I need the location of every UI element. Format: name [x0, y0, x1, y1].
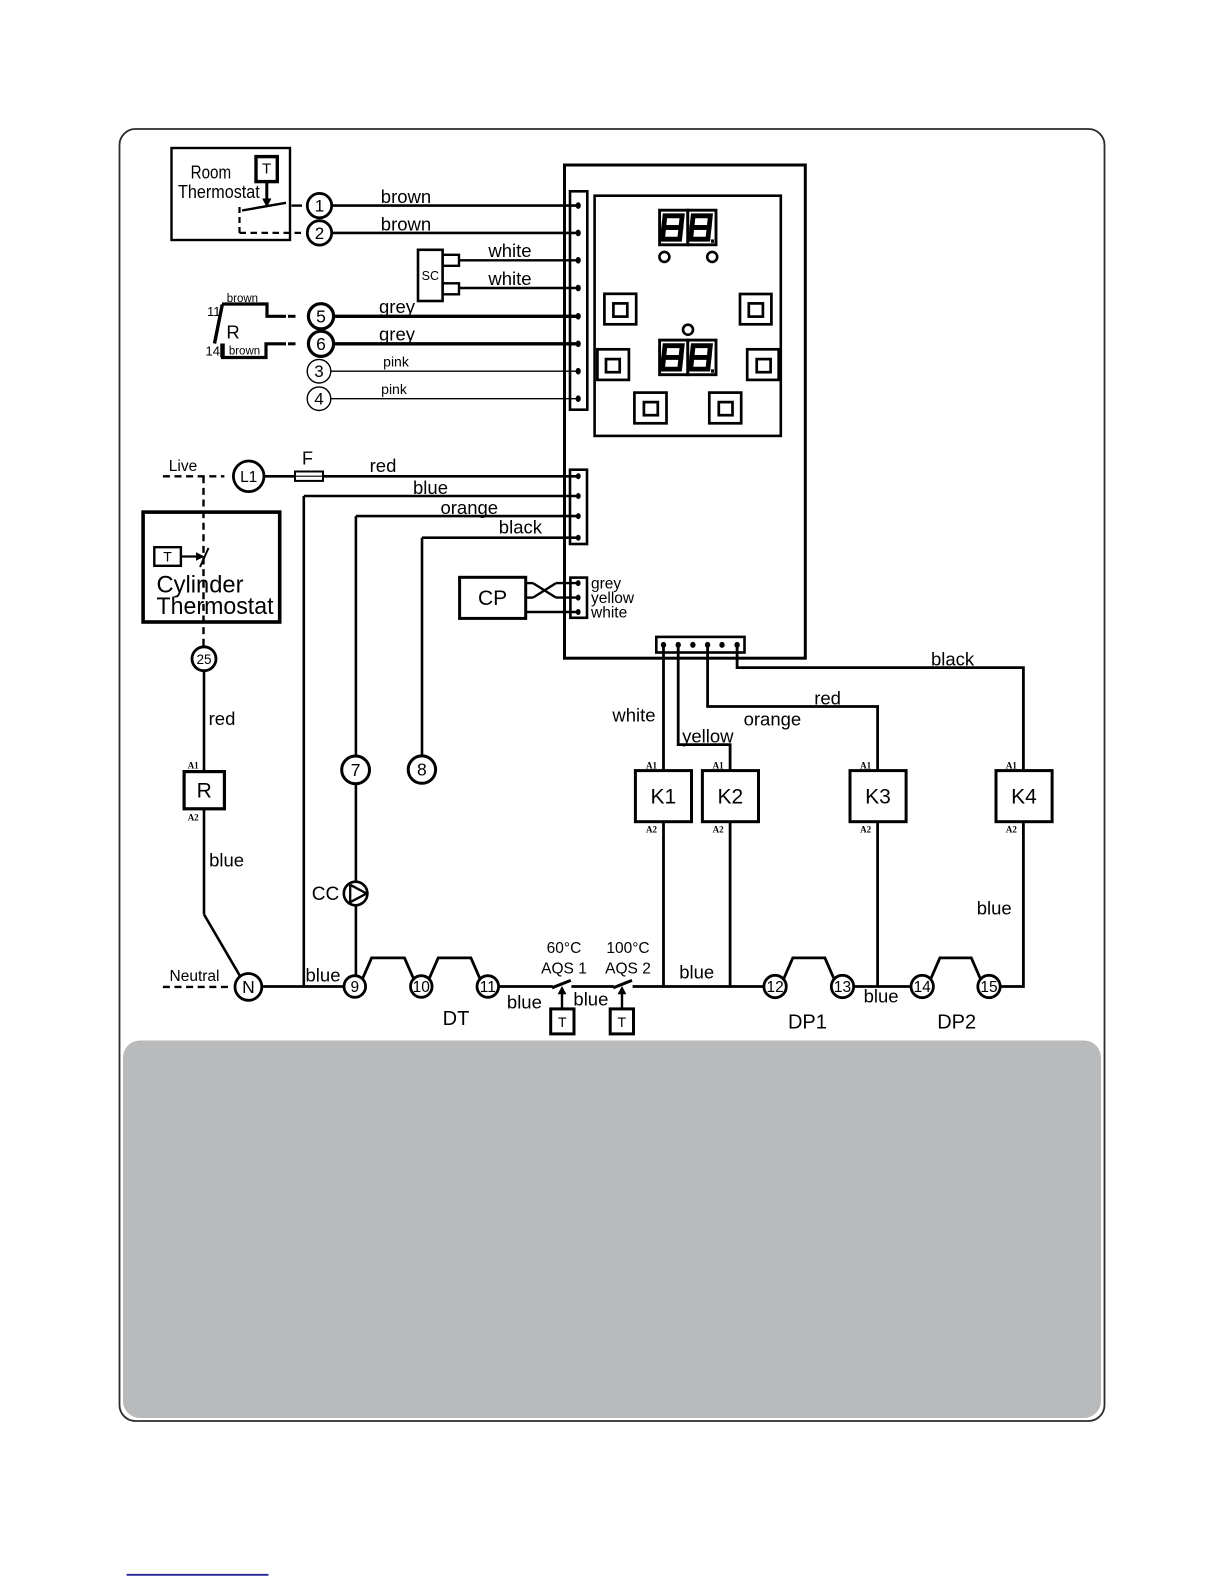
svg-text:10: 10	[413, 979, 431, 996]
svg-text:pink: pink	[383, 354, 410, 370]
svg-text:pink: pink	[381, 381, 408, 397]
svg-text:CC: CC	[312, 884, 339, 905]
svg-text:T: T	[558, 1014, 567, 1030]
svg-text:AQS 2: AQS 2	[605, 960, 651, 977]
svg-text:14: 14	[914, 979, 932, 996]
svg-text:SC: SC	[422, 269, 439, 283]
svg-text:A2: A2	[188, 813, 199, 823]
svg-text:15: 15	[980, 979, 997, 996]
svg-text:L1: L1	[240, 469, 257, 486]
svg-text:A1: A1	[188, 761, 199, 771]
svg-text:A1: A1	[646, 760, 657, 770]
svg-text:N: N	[242, 977, 255, 997]
svg-text:blue: blue	[864, 986, 899, 1007]
svg-text:T: T	[262, 161, 271, 178]
svg-text:Room: Room	[191, 162, 232, 182]
svg-text:blue: blue	[413, 477, 448, 498]
svg-text:A2: A2	[646, 825, 657, 835]
svg-text:5: 5	[316, 307, 326, 327]
svg-text:DP1: DP1	[788, 1012, 827, 1034]
svg-text:9: 9	[350, 979, 359, 996]
svg-text:orange: orange	[440, 497, 498, 518]
svg-text:A1: A1	[713, 760, 724, 770]
svg-text:T: T	[618, 1014, 627, 1030]
svg-text:1: 1	[315, 197, 324, 216]
svg-text:white: white	[487, 268, 531, 289]
svg-text:8: 8	[417, 760, 427, 780]
svg-text:K1: K1	[651, 786, 677, 809]
svg-text:6: 6	[316, 334, 326, 354]
svg-text:A1: A1	[860, 760, 871, 770]
svg-text:white: white	[590, 605, 627, 622]
svg-text:blue: blue	[977, 898, 1012, 919]
svg-text:Thermostat: Thermostat	[178, 182, 260, 202]
svg-text:red: red	[209, 708, 236, 729]
svg-text:AQS 1: AQS 1	[541, 960, 587, 977]
svg-text:blue: blue	[306, 965, 341, 986]
svg-text:DP2: DP2	[937, 1012, 976, 1034]
svg-text:A2: A2	[860, 825, 871, 835]
svg-text:CP: CP	[478, 587, 507, 610]
svg-text:60°C: 60°C	[547, 940, 582, 957]
svg-text:grey: grey	[379, 324, 416, 345]
svg-text:yellow: yellow	[682, 726, 734, 747]
svg-text:blue: blue	[679, 962, 714, 983]
svg-text:R: R	[226, 322, 239, 343]
svg-text:white: white	[487, 240, 531, 261]
svg-text:black: black	[499, 517, 543, 538]
svg-text:brown: brown	[229, 346, 260, 358]
svg-text:K2: K2	[718, 786, 744, 809]
svg-text:T: T	[163, 549, 172, 565]
svg-text:4: 4	[314, 390, 323, 409]
svg-text:25: 25	[196, 652, 211, 667]
svg-text:A1: A1	[1006, 760, 1017, 770]
svg-text:12: 12	[766, 979, 783, 996]
svg-text:K4: K4	[1011, 786, 1037, 809]
svg-text:blue: blue	[507, 992, 542, 1013]
svg-text:Neutral: Neutral	[170, 968, 220, 985]
svg-text:orange: orange	[744, 708, 802, 729]
svg-text:11: 11	[480, 979, 496, 996]
svg-text:2: 2	[315, 224, 324, 243]
svg-text:red: red	[370, 455, 397, 476]
svg-text:13: 13	[834, 979, 851, 996]
svg-text:DT: DT	[443, 1008, 470, 1030]
svg-text:white: white	[611, 705, 655, 726]
svg-text:100°C: 100°C	[606, 940, 649, 957]
svg-text:blue: blue	[573, 989, 608, 1010]
svg-text:A2: A2	[713, 825, 724, 835]
svg-text:Thermostat: Thermostat	[157, 593, 274, 620]
svg-text:14: 14	[206, 344, 220, 359]
svg-text:blue: blue	[209, 850, 244, 871]
svg-text:brown: brown	[381, 213, 431, 234]
svg-text:Live: Live	[169, 458, 197, 475]
svg-text:R: R	[197, 780, 212, 803]
svg-text:7: 7	[351, 760, 361, 780]
svg-text:3: 3	[314, 362, 323, 381]
svg-text:A2: A2	[1006, 825, 1017, 835]
svg-text:grey: grey	[379, 296, 416, 317]
svg-text:brown: brown	[381, 186, 431, 207]
svg-text:red: red	[814, 688, 841, 709]
svg-text:F: F	[302, 449, 313, 469]
svg-text:black: black	[931, 649, 975, 670]
svg-text:K3: K3	[865, 786, 891, 809]
